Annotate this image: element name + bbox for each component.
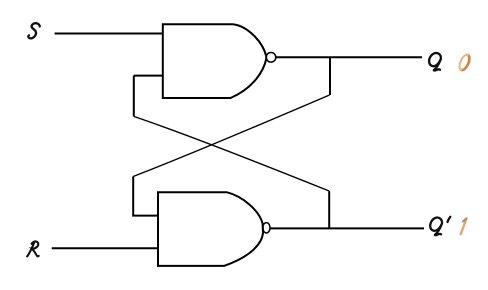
label R — [27, 241, 39, 256]
wire U1 lower input stub — [134, 75, 163, 77]
label 1 (output state) — [461, 218, 467, 234]
wire Q' feedback drop to output net — [328, 191, 330, 228]
nand gate U1 (top) — [163, 24, 266, 98]
wire Q feedback diagonal — [133, 95, 329, 177]
wire Q feedback elbow into U2 input — [133, 177, 158, 216]
wire S input — [55, 33, 163, 35]
wire Q' feedback diagonal — [134, 117, 329, 192]
bubble U1 — [266, 53, 276, 63]
wire U1 output to node Q — [276, 56, 422, 58]
wire Q feedback vertical drop — [329, 57, 331, 95]
wire U2 output to node Q' — [270, 227, 424, 229]
label Q' — [428, 216, 450, 236]
nand gate U2 (bottom) — [158, 192, 263, 266]
wire R input — [52, 247, 158, 249]
bubble U2 — [263, 223, 270, 233]
label Q — [427, 52, 443, 72]
label S — [28, 23, 39, 38]
wire Q' feedback vertical left — [133, 76, 135, 117]
label 0 (output state) — [458, 53, 472, 71]
